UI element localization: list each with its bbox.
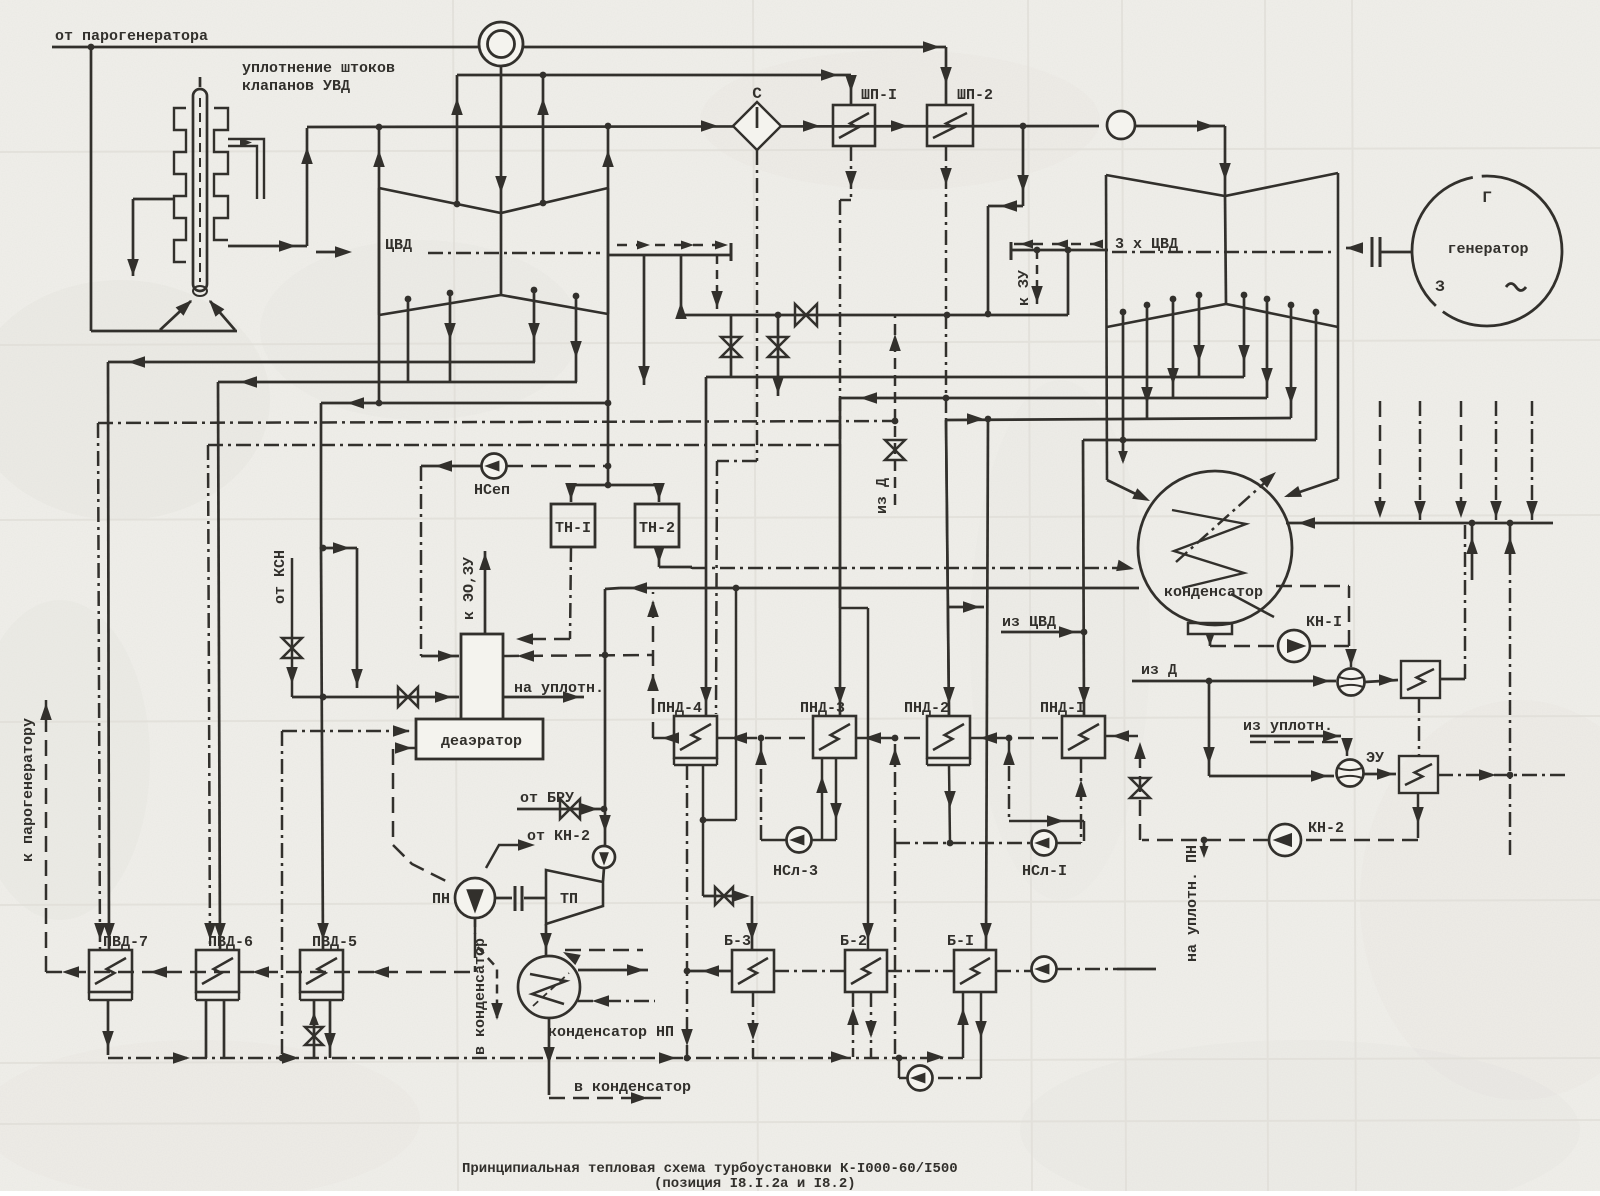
label: ПНД-4 bbox=[657, 700, 702, 717]
component: condenser circle bbox=[1138, 471, 1292, 625]
wire: dashed link condenser to КН-1 riser bbox=[1276, 585, 1349, 588]
wire: cooling water drop 1 bbox=[1374, 401, 1386, 520]
wire: left vertical from main header bbox=[90, 47, 93, 331]
component: seal heater ТН-1 bbox=[551, 504, 595, 547]
svg-text:от КН-2: от КН-2 bbox=[527, 828, 590, 845]
wire: gland riser left bbox=[451, 75, 463, 207]
label: НСл-I bbox=[1022, 863, 1067, 880]
wire: ШП-1 drain bbox=[840, 146, 874, 950]
svg-text:к ЗУ: к ЗУ bbox=[1016, 270, 1033, 306]
wire: КНП stub top (dashed) bbox=[563, 950, 643, 965]
label: ПНД-I bbox=[1040, 700, 1085, 717]
label: от КСН (rotated) bbox=[272, 550, 289, 604]
wire: НСеп discharge to deaerator bbox=[421, 460, 481, 662]
label: в конденсатор bbox=[574, 1079, 691, 1096]
wire: dashed drop x=717 bbox=[711, 255, 723, 311]
component: mixer before ЭЖ bbox=[1338, 669, 1365, 696]
component: drive turbine ТП bbox=[546, 870, 603, 924]
component: reheater ШП-2 bbox=[927, 105, 973, 146]
component: condensate pump КН-1 bbox=[1278, 630, 1310, 662]
wire: branch to deaerator via x=357 bbox=[351, 548, 363, 688]
wire: cooling water drop 4 bbox=[1490, 401, 1502, 520]
wire: ПВД-6 drain stubs bbox=[206, 1000, 224, 1058]
wire: ЦВД outlet header y=255 bbox=[608, 243, 731, 261]
wire: right dash-dot riser x=1510 bbox=[1509, 560, 1512, 855]
node: HP extraction 1a bbox=[405, 296, 412, 303]
wire: hot reheat into ЦНД bbox=[1107, 111, 1231, 195]
wire: LP exhaust right into condenser bbox=[1284, 479, 1338, 497]
wire: ТП exhaust bbox=[540, 924, 552, 956]
wire: Б-3 drain bbox=[747, 992, 759, 1058]
svg-text:ПВД-6: ПВД-6 bbox=[208, 934, 253, 951]
svg-text:конденсатор: конденсатор bbox=[1164, 584, 1263, 601]
component: pump above ТП bbox=[593, 846, 615, 868]
wire: feedwater line through ПВД heaters bbox=[46, 966, 475, 978]
node: LP extraction dot 1 bbox=[1120, 309, 1127, 316]
label: КН-2 bbox=[1308, 820, 1344, 837]
svg-text:Б-2: Б-2 bbox=[840, 933, 867, 950]
svg-text:клапанов УВД: клапанов УВД bbox=[242, 78, 350, 95]
wire: riser into header 2 bbox=[1504, 523, 1516, 560]
wire: mixer to ЭЖ cooler bbox=[1365, 674, 1398, 686]
wire: ПНД-2 steam downcomer bbox=[946, 420, 949, 716]
wire: из Д riser to crossover bbox=[885, 315, 905, 505]
wire: ПНД-3 drain loop bbox=[812, 758, 842, 840]
wire: на уплотн. ПН arrow bbox=[1200, 840, 1209, 858]
wire: gland riser right bbox=[537, 75, 549, 206]
label: генератор bbox=[1447, 241, 1528, 258]
component: конденсатор НП circle bbox=[518, 956, 580, 1018]
label: к ЗУ (rotated) bbox=[1016, 270, 1033, 306]
wire: gland steam line y=75 bbox=[457, 69, 851, 81]
wire: ЦВД admission arrow bbox=[316, 246, 352, 258]
wire: ЦВД shaft centreline bbox=[428, 252, 600, 255]
wire: cooling water drop 5 bbox=[1526, 401, 1538, 520]
svg-text:конденсатор НП: конденсатор НП bbox=[548, 1024, 674, 1041]
svg-text:(позиция I8.I.2а и I8.2): (позиция I8.I.2а и I8.2) bbox=[654, 1176, 856, 1191]
component: drain pump НСл-1 bbox=[1032, 831, 1057, 856]
node: LP extraction dot 3 bbox=[1170, 296, 1177, 303]
wire: corner down to ШП-2 bbox=[940, 47, 952, 105]
svg-text:ПН: ПН bbox=[432, 891, 450, 908]
svg-text:ПНД-2: ПНД-2 bbox=[904, 700, 949, 717]
component: condenser tube zigzag bbox=[1172, 510, 1246, 588]
wire: cooling water supply header y=523 bbox=[1286, 517, 1553, 529]
wire: extraction header to ПНД-1 y=440 bbox=[1083, 439, 1316, 442]
wire: ПНД-4 drain dash-dot riser x=687 bbox=[681, 765, 693, 1058]
wire: из Д branch down bbox=[1203, 681, 1334, 782]
wire: drop ext 2a bbox=[444, 293, 456, 382]
component: heater ПНД-3 bbox=[813, 716, 856, 758]
wire: из ЦВД line bbox=[1001, 626, 1084, 638]
svg-text:ТН-I: ТН-I bbox=[555, 520, 591, 537]
component: condensate pump КН-2 bbox=[1269, 824, 1301, 856]
label: ТН-2 bbox=[639, 520, 675, 537]
label: ПВД-7 bbox=[103, 934, 148, 951]
wire: С separator drain dash-dot bbox=[716, 150, 757, 714]
wire: funnel base line bbox=[91, 330, 237, 333]
wire: НСеп suction dashed bbox=[507, 465, 606, 468]
wire: ПВД-7 drain bbox=[102, 1000, 114, 1055]
svg-text:НСеп: НСеп bbox=[474, 482, 510, 499]
component: turbine 3 x ЦНД outline bbox=[1106, 173, 1338, 480]
label: ПН bbox=[432, 891, 450, 908]
wire: seal steam off-take bbox=[503, 691, 584, 703]
svg-text:НСл-I: НСл-I bbox=[1022, 863, 1067, 880]
label: caption line 2 bbox=[654, 1176, 856, 1192]
component: left labyrinth seal comb bbox=[174, 108, 186, 262]
svg-text:от КСН: от КСН bbox=[272, 550, 289, 604]
label: НСеп bbox=[474, 482, 510, 499]
wire: drop x=644 bbox=[638, 255, 650, 385]
wire: LP drop 1123 bbox=[1120, 312, 1127, 443]
wire: ПН-ТП coupling bbox=[495, 886, 546, 911]
node: LP extraction dot 5 bbox=[1241, 292, 1248, 299]
wire: main condensate line y=738 (dashed) bbox=[653, 730, 1138, 744]
label: ЭУ bbox=[1366, 750, 1384, 767]
wire: ТН-1 drain to deaerator bbox=[516, 547, 571, 645]
wire: КН-1 discharge bbox=[1310, 586, 1357, 667]
label: на уплотн. bbox=[514, 680, 604, 697]
wire: LP drop 1316 bbox=[1315, 312, 1318, 440]
wire: к ЗУ dashed drop bbox=[1031, 250, 1043, 305]
wire: ПНД-4 drain to Б-3 bbox=[700, 588, 758, 950]
wire: drop ext 2b bbox=[570, 296, 582, 382]
wire: ПНД-3 steam downcomer bbox=[834, 398, 846, 716]
component: right labyrinth seal comb bbox=[214, 108, 228, 240]
node: LP extraction dot 4 bbox=[1196, 292, 1203, 299]
wire: extraction header to ПНД-3 y=398 bbox=[840, 392, 1267, 404]
label: ПНД-3 bbox=[800, 700, 845, 717]
wire: feedwater to steam generator bbox=[40, 700, 52, 972]
svg-text:ТН-2: ТН-2 bbox=[639, 520, 675, 537]
wire: ПНД-1 steam downcomer bbox=[1078, 440, 1090, 716]
svg-text:деаэратор: деаэратор bbox=[441, 733, 522, 750]
wire: ПН discharge to feed line bbox=[474, 918, 477, 972]
component: moisture separator С (diamond) bbox=[733, 102, 781, 150]
wire: ЭЖ outlet riser bbox=[1440, 525, 1465, 679]
wire: от БРУ line bbox=[517, 799, 607, 819]
wire: ПВД-5 drain with valve bbox=[305, 1000, 336, 1058]
wire: drop ext 1a bbox=[407, 299, 410, 382]
wire: ПВД-5 steam downcomer bbox=[317, 548, 329, 950]
svg-text:ПВД-5: ПВД-5 bbox=[312, 934, 357, 951]
wire: LP drop 1291 bbox=[1285, 305, 1297, 418]
wire: relief branch 1 bbox=[721, 315, 741, 378]
label: ТП bbox=[560, 891, 578, 908]
wire: corner down into ШП-1 bbox=[845, 75, 857, 105]
wire: relief branch 2 bbox=[768, 315, 788, 396]
wire: НСл-1 discharge riser x=895 bbox=[889, 738, 901, 843]
svg-text:Принципиальная тепловая схема: Принципиальная тепловая схема турбоустан… bbox=[462, 1161, 958, 1177]
wire: ПНД-1 drain to НСл-1 bbox=[1003, 738, 1087, 843]
wire: vent arrows (dashed) over ЦНД header bbox=[1014, 240, 1103, 249]
wire: drop ext 1b bbox=[528, 290, 540, 362]
label: Б-I bbox=[947, 933, 974, 950]
wire: ПВД-6 second downcomer bbox=[204, 445, 216, 950]
wire: reheater drain cross line y=445 bbox=[208, 444, 840, 447]
component: pump on Б line bbox=[1032, 957, 1057, 982]
component: gland steam mixer ЭУ bbox=[1337, 760, 1364, 787]
label: деаэратор bbox=[441, 733, 522, 750]
wire: Б-2 stubs bbox=[847, 992, 877, 1057]
label: ШП-2 bbox=[957, 87, 993, 104]
wire: circulating water diagonal bbox=[1176, 472, 1276, 617]
wire: HP turbine right edge riser bbox=[602, 126, 614, 485]
label: от парогенератора bbox=[55, 28, 208, 45]
wire: main steam header from steam generator y=47 bbox=[52, 41, 946, 53]
wire: HP exhaust header y=403 bbox=[321, 397, 608, 409]
component: deaerator tank bbox=[416, 719, 543, 759]
svg-text:из ЦВД: из ЦВД bbox=[1002, 614, 1056, 631]
svg-text:на уплотн.: на уплотн. bbox=[514, 680, 604, 697]
label: КН-I bbox=[1306, 614, 1342, 631]
svg-text:из Д: из Д bbox=[874, 478, 891, 514]
wire: seal steam off-take pipe (double line) bbox=[228, 138, 264, 199]
label: ~ (AC symbol) bbox=[1506, 284, 1526, 291]
svg-text:из уплотн.: из уплотн. bbox=[1243, 718, 1333, 735]
svg-text:С: С bbox=[752, 85, 762, 103]
label: ПНД-2 bbox=[904, 700, 949, 717]
label: из уплотн. bbox=[1243, 718, 1333, 735]
component: heater Б-1 bbox=[954, 950, 996, 992]
component: heater ПНД-1 bbox=[1062, 716, 1105, 758]
wire: long drain line y=423 bbox=[98, 421, 895, 423]
svg-text:КН-I: КН-I bbox=[1306, 614, 1342, 631]
node: HP extraction 2a bbox=[447, 290, 454, 297]
wire: КНП bottom drain bbox=[543, 1018, 662, 1104]
component: drain pump under Б-1 bbox=[908, 1066, 933, 1091]
component: pump НСеп bbox=[482, 454, 507, 479]
wire: LP drop 1173 bbox=[1167, 299, 1179, 398]
svg-text:Б-3: Б-3 bbox=[724, 933, 751, 950]
wire: ПНД-4 steam downcomer bbox=[700, 377, 712, 716]
wire: condensate riser to deaerator (x=653) bbox=[647, 592, 659, 738]
wire: riser x=282 bbox=[281, 731, 284, 1058]
wire: heating line through Б heaters y=971 bbox=[689, 965, 1156, 977]
component: reheater ШП-1 bbox=[833, 105, 875, 146]
wire: drop x=681 to crossover line bbox=[675, 255, 687, 319]
wire: HP turbine left edge riser bbox=[373, 127, 385, 403]
component: valve on crossover bbox=[795, 304, 817, 326]
svg-text:ПНД-3: ПНД-3 bbox=[800, 700, 845, 717]
wire: cooling water drop 3 bbox=[1455, 401, 1467, 520]
node: LP extraction dot 6 bbox=[1264, 296, 1271, 303]
label: caption line 1 bbox=[462, 1161, 958, 1177]
wire: ЭУ drain to КН-2 bbox=[1302, 793, 1424, 840]
wire: riser into header 1 bbox=[1466, 523, 1478, 580]
wire: LP drop 1147 bbox=[1141, 305, 1153, 418]
svg-text:ПНД-4: ПНД-4 bbox=[657, 700, 702, 717]
wire: LP drop 1267 bbox=[1261, 299, 1273, 398]
wire: из Д line bbox=[1132, 662, 1336, 687]
wire: drop from reheat line to crossover bbox=[988, 126, 1029, 314]
wire: от КН-2 stub into ПН bbox=[486, 839, 535, 868]
component: УВД valve stem (rod) bbox=[193, 77, 207, 291]
wire: КНП stub mid bbox=[578, 964, 648, 976]
svg-text:Б-I: Б-I bbox=[947, 933, 974, 950]
svg-text:Г: Г bbox=[1482, 189, 1492, 207]
wire: ЦНД inlet header y=250 bbox=[1011, 242, 1108, 260]
component: generator Г bbox=[1412, 176, 1562, 326]
wire: Б-1 stubs bbox=[957, 992, 987, 1078]
svg-text:в конденсатор: в конденсатор bbox=[574, 1079, 691, 1096]
wire: hotwell to КН-1 bbox=[1206, 634, 1277, 646]
node: flow measurement double circle on main steam line bbox=[479, 22, 523, 66]
svg-text:НСл-3: НСл-3 bbox=[773, 863, 818, 880]
label: из ЦВД bbox=[1002, 614, 1056, 631]
component: ejector cooler ЭЖ bbox=[1401, 661, 1440, 698]
wire: ПВД-7 steam downcomer bbox=[103, 362, 115, 950]
svg-text:к парогенератору: к парогенератору bbox=[20, 718, 37, 862]
svg-text:ШП-2: ШП-2 bbox=[957, 87, 993, 104]
wire: jog y=607 bbox=[949, 601, 984, 613]
wire: cold reheat / HP exhaust header y=127 bbox=[307, 120, 1099, 132]
wire: из уплотн. line bbox=[1250, 730, 1353, 756]
svg-text:уплотнение штоков: уплотнение штоков bbox=[242, 60, 395, 77]
wire: branch to Б-1 feeder bbox=[967, 413, 992, 950]
label: З bbox=[1435, 278, 1445, 296]
label: 3 х ЦВД bbox=[1115, 236, 1178, 253]
wire: ЭУ outlet line bbox=[1438, 769, 1565, 781]
node: HP extraction 1b bbox=[531, 287, 538, 294]
svg-text:ТП: ТП bbox=[560, 891, 578, 908]
wire: ЭЖ drain to ЭУ bbox=[1418, 698, 1421, 757]
label: из Д (rotated) bbox=[874, 478, 891, 514]
wire: extraction header to ПНД-4 y=377 bbox=[706, 376, 1244, 379]
label: к парогенератору (rotated) bbox=[20, 718, 37, 862]
wire: extraction header B y=382 to ПВД-6 bbox=[218, 376, 577, 388]
svg-text:из Д: из Д bbox=[1141, 662, 1177, 679]
wire: ТН-2 drain to condenser line bbox=[653, 546, 692, 569]
wire: extraction header A y=362 to ПВД-7 bbox=[108, 356, 535, 368]
wire: drains into deaerator tank (dash-dot) bbox=[282, 725, 414, 737]
wire: HP exhaust drop to deaerator path bbox=[320, 403, 357, 554]
svg-text:3 х ЦВД: 3 х ЦВД bbox=[1115, 236, 1178, 253]
component: condenser hotwell bbox=[1188, 623, 1232, 634]
svg-text:к ЭО,ЗУ: к ЭО,ЗУ bbox=[461, 557, 478, 620]
svg-text:ПВД-7: ПВД-7 bbox=[103, 934, 148, 951]
svg-text:от парогенератора: от парогенератора bbox=[55, 28, 208, 45]
wire: от КСН feed bbox=[282, 558, 459, 707]
wire: condensate return into column (dashed) bbox=[503, 650, 653, 662]
node: HP extraction 2b bbox=[573, 293, 580, 300]
label: конденсатор НП bbox=[548, 1024, 674, 1041]
svg-text:ЦВД: ЦВД bbox=[385, 237, 412, 254]
label: ШП-I bbox=[861, 87, 897, 104]
component: heater Б-2 bbox=[845, 950, 887, 992]
svg-text:ШП-I: ШП-I bbox=[861, 87, 897, 104]
wire: ПНД-2 drain bbox=[944, 765, 956, 843]
label: НСл-3 bbox=[773, 863, 818, 880]
label: ПВД-5 bbox=[312, 934, 357, 951]
wire: vent arrows (dashed) over ЦВД header bbox=[617, 241, 728, 250]
component: heater ПНД-4 bbox=[674, 716, 717, 765]
wire: ЦВД centre partition bbox=[500, 213, 503, 295]
wire: dump stub to condenser bbox=[1118, 440, 1128, 464]
wire: КН-2 discharge to condensate line bbox=[1130, 742, 1269, 843]
label: от КН-2 bbox=[527, 828, 590, 845]
svg-text:ЭУ: ЭУ bbox=[1366, 750, 1384, 767]
wire: seal leak-off to reheat line riser bbox=[228, 128, 313, 252]
node: LP extraction dot 7 bbox=[1288, 302, 1295, 309]
wire: к ЭО,ЗУ vent bbox=[479, 551, 491, 634]
wire: steam drop from circle into HP turbine centre bbox=[495, 66, 507, 212]
node: LP extraction dot 8 bbox=[1313, 309, 1320, 316]
label: Г bbox=[1482, 189, 1492, 207]
label: уплотнение штоков клапанов УВД bbox=[242, 60, 395, 95]
wire: ПВД-6 steam downcomer bbox=[214, 382, 226, 950]
wire: LP drop 1244 bbox=[1238, 295, 1250, 377]
svg-text:КН-2: КН-2 bbox=[1308, 820, 1344, 837]
component: heater ПВД-5 bbox=[300, 950, 343, 1000]
wire: x=895 continues to drain cascade bbox=[894, 843, 897, 1056]
label: в конденсатор (rotated) bbox=[472, 938, 489, 1055]
component: drain funnel under stem bbox=[160, 286, 235, 330]
label: Б-2 bbox=[840, 933, 867, 950]
label: ЦВД bbox=[385, 237, 412, 254]
svg-text:на уплотн. ПН: на уплотн. ПН bbox=[1184, 845, 1201, 962]
component: feed pump ПН bbox=[455, 878, 495, 918]
wire: crossover line y=315 bbox=[681, 311, 1068, 319]
wire: ЦНД centre partition bbox=[1225, 196, 1226, 304]
wire: НСл-3 discharge bbox=[755, 738, 787, 840]
component: turbine ЦВД outline bbox=[379, 188, 608, 315]
wire: pump to ТП bbox=[603, 868, 604, 881]
svg-text:генератор: генератор bbox=[1447, 241, 1528, 258]
label: ПВД-6 bbox=[208, 934, 253, 951]
wire: ЦНД shaft centreline bbox=[1112, 251, 1334, 254]
component: heater ПВД-7 bbox=[89, 950, 132, 1000]
wire: extraction header to ПНД-2 y=418 bbox=[946, 416, 1291, 423]
wire: cooling water drop 2 bbox=[1414, 401, 1426, 520]
component: seal heater ТН-2 bbox=[635, 504, 679, 547]
wire: ПВД drains header y=1058 bbox=[108, 1051, 963, 1064]
wire: КНП stub bottom bbox=[578, 995, 655, 1007]
wire: ПН recirculation в конденсатор bbox=[475, 918, 503, 1020]
label: на уплотн. ПН (rotated) bbox=[1184, 845, 1201, 962]
component: heater ПНД-2 bbox=[927, 716, 970, 765]
wire: mixer ЭУ to cooler bbox=[1364, 768, 1396, 780]
wire: LP exhaust left into condenser bbox=[1107, 480, 1150, 501]
wire: feed to ТН heaters bbox=[565, 482, 665, 502]
svg-text:З: З bbox=[1435, 278, 1445, 296]
label: ТН-I bbox=[555, 520, 591, 537]
wire: ПВД-7 second downcomer bbox=[94, 423, 106, 950]
wire: НСл-1 suction header bbox=[895, 840, 1031, 847]
component: deaerator column bbox=[461, 634, 503, 720]
label: к ЭО,ЗУ (rotated) bbox=[461, 557, 478, 620]
label: конденсатор bbox=[1164, 584, 1263, 601]
wire: Б-1 drain pump loop bbox=[896, 1055, 981, 1078]
wire: condensate line y=588 to ТП loop bbox=[599, 582, 1139, 846]
label: Б-3 bbox=[724, 933, 751, 950]
wire: LP drop 1199 bbox=[1193, 295, 1205, 377]
component: heater ПВД-6 bbox=[196, 950, 239, 1000]
wire: ШП-2 drain bbox=[940, 146, 955, 716]
wire: drop x=1068 to crossover bbox=[1067, 250, 1070, 315]
component: drain pump НСл-3 bbox=[787, 828, 812, 853]
component: heater Б-3 bbox=[732, 950, 774, 992]
wire: deaerator tank outlet to ПН bbox=[393, 742, 452, 884]
wire: coupling to generator bbox=[1346, 237, 1411, 267]
component: gland steam cooler ЭУ bbox=[1399, 756, 1438, 793]
wire: left seal drain to funnel line bbox=[127, 199, 175, 276]
label: С bbox=[752, 85, 762, 103]
label: от БРУ bbox=[520, 790, 574, 807]
node: LP extraction dot 2 bbox=[1144, 302, 1151, 309]
wire: drains line to condenser y=568 bbox=[692, 560, 1134, 571]
